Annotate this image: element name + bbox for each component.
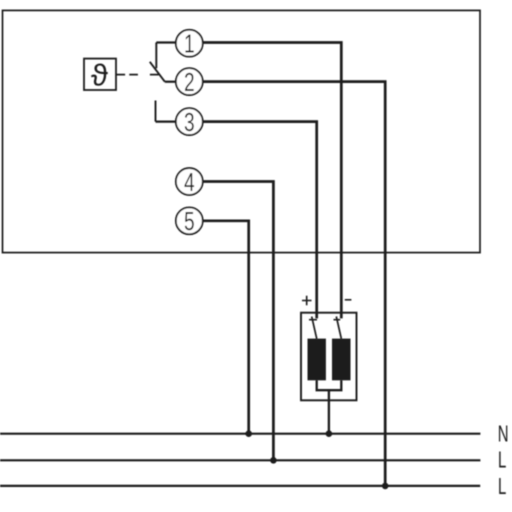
wire contact to terminal 1 <box>156 41 176 43</box>
switch lever S1 <box>150 62 165 82</box>
svg-text:4: 4 <box>184 168 195 196</box>
junction dot wire2-L2 <box>382 483 389 490</box>
junction dot component-N <box>326 430 333 437</box>
line L1 <box>0 459 480 461</box>
wire lever to terminal 2 <box>165 81 176 83</box>
plus polarity label <box>302 296 312 305</box>
battery component box G1 <box>301 313 357 401</box>
wire terminal 4 to line L1 <box>203 182 274 460</box>
terminal circle 3 <box>176 108 203 135</box>
terminal circle 2 <box>176 68 203 95</box>
svg-text:N: N <box>498 422 509 447</box>
svg-text:2: 2 <box>184 68 195 96</box>
minus polarity label <box>345 299 352 301</box>
svg-text:3: 3 <box>184 108 195 136</box>
plus electrode clip tick <box>309 319 317 321</box>
wire stub to terminal 3 <box>156 120 177 122</box>
wire terminal 2 to line L2 <box>203 82 385 485</box>
mechanical link (dashed) <box>117 74 159 76</box>
minus electrode clip tick <box>334 319 341 321</box>
svg-text:1: 1 <box>184 30 195 58</box>
switch fixed contact stub (terminal 3 side) <box>155 101 157 122</box>
terminal circle 5 <box>176 207 203 234</box>
device outline box <box>3 10 481 252</box>
minus electrode bar <box>332 339 351 381</box>
plus electrode bar <box>308 339 326 381</box>
wire terminal 3 to plus electrode <box>203 122 317 319</box>
junction dot wire5-N <box>245 430 252 437</box>
wire terminal 1 to minus electrode <box>203 43 341 319</box>
wire component to line N <box>328 390 330 432</box>
thermostat sensor box B1 <box>84 59 116 90</box>
switch fixed contact (terminal 1 side) <box>155 43 157 69</box>
line L2 <box>0 485 480 487</box>
terminal circle 4 <box>176 168 203 195</box>
terminal circle 1 <box>176 30 203 57</box>
wire terminal 5 to line N <box>203 221 249 433</box>
junction dot wire4-L1 <box>270 457 277 464</box>
plus electrode clip lever <box>312 317 317 339</box>
electrode bottom link <box>317 380 342 390</box>
svg-text:L: L <box>498 449 506 474</box>
svg-text:5: 5 <box>184 207 195 235</box>
line N <box>0 433 480 435</box>
svg-text:L: L <box>498 475 506 500</box>
minus electrode clip lever <box>336 317 341 339</box>
svg-text:ϑ: ϑ <box>91 58 108 93</box>
